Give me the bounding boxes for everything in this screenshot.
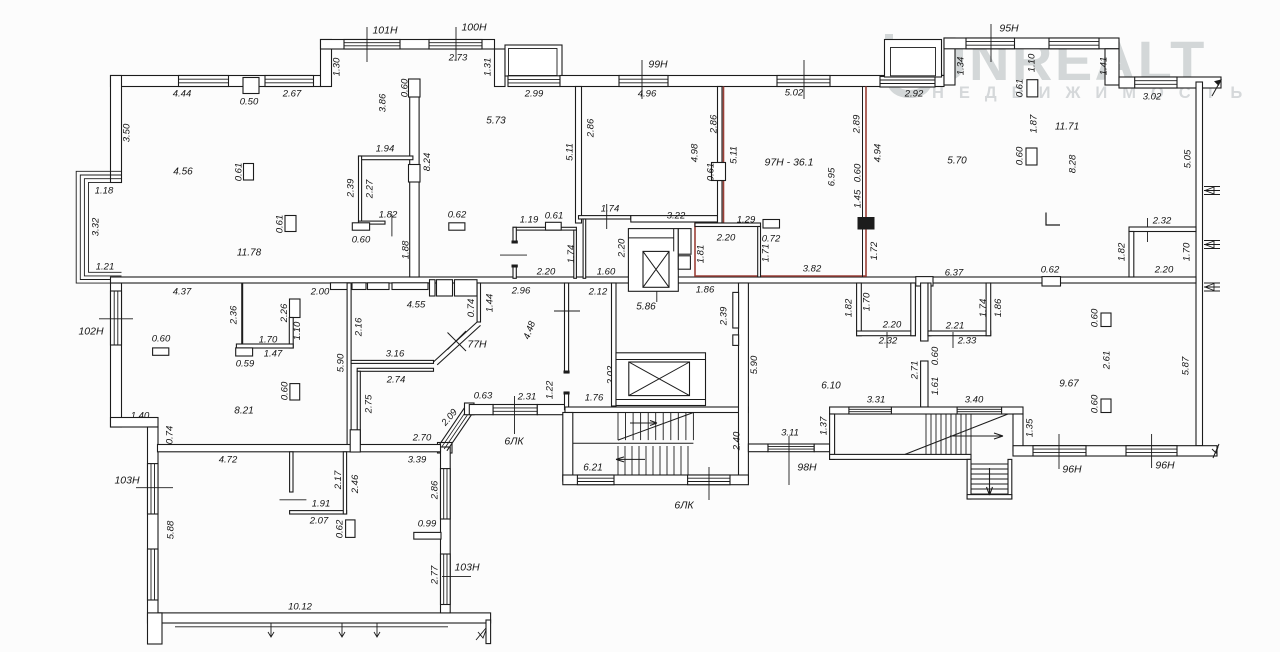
shelf 0.59: [236, 348, 253, 356]
stair 98H bottom wall lower: [967, 495, 1012, 499]
svg-text:103Н: 103Н: [114, 474, 140, 486]
svg-text:2.16: 2.16: [353, 317, 364, 337]
svg-text:1.10: 1.10: [1026, 53, 1037, 72]
tick 100H: [455, 27, 457, 61]
vent 0.62 top: [449, 223, 465, 230]
svg-text:3.40: 3.40: [965, 394, 984, 405]
pier top of 8.24 wall: [409, 79, 421, 97]
wall corridor 2.71 lower: [921, 361, 928, 407]
svg-text:4.96: 4.96: [638, 88, 657, 99]
svg-text:4.56: 4.56: [173, 166, 193, 177]
svg-text:4.44: 4.44: [173, 88, 192, 99]
storage S1 left wall lower: [513, 266, 516, 278]
room 1.91 left wall: [290, 452, 293, 492]
window 2.86 right of 103H block: [441, 469, 451, 519]
svg-text:2.96: 2.96: [511, 285, 531, 296]
wall bottom step down stub: [486, 620, 491, 644]
svg-text:1.82: 1.82: [843, 298, 854, 317]
storage S2 top wall: [579, 216, 631, 219]
window 99H: [619, 76, 668, 87]
svg-text:0.99: 0.99: [418, 518, 437, 529]
stair 6LK upper flight arrow: [630, 421, 657, 426]
svg-text:3.22: 3.22: [667, 210, 686, 221]
ledge 0.99: [414, 532, 441, 539]
stair 6LK flight divider: [573, 442, 694, 444]
vent 0.60 967 lower: [1101, 399, 1111, 413]
diagonal wall 77H: [434, 322, 481, 365]
wall 5.11 vertical: [576, 87, 582, 224]
svg-text:2.33: 2.33: [957, 335, 977, 346]
svg-text:5.05: 5.05: [1182, 149, 1193, 168]
stair 6LK bottom wall: [563, 475, 749, 485]
svg-text:1.61: 1.61: [930, 377, 941, 396]
svg-text:5.70: 5.70: [947, 155, 967, 166]
storage S1 door tick: [500, 254, 527, 256]
svg-text:1.22: 1.22: [544, 380, 555, 399]
window 96H-1: [1033, 446, 1086, 456]
svg-text:1.41: 1.41: [1098, 57, 1109, 76]
vent pier corridor 1: [733, 292, 739, 328]
svg-text:3.86: 3.86: [377, 93, 388, 112]
tick 96H-1: [1058, 434, 1060, 469]
tick 103H right: [442, 576, 471, 578]
window 6LK bottom 2: [688, 475, 730, 485]
balcony mark right 2: [1204, 241, 1220, 249]
svg-text:2.71: 2.71: [909, 361, 920, 381]
svg-text:1.44: 1.44: [484, 294, 495, 313]
left bay window nested lines: [76, 171, 121, 283]
room 2.27 bottom wall: [359, 221, 386, 224]
tick 5.02: [803, 60, 805, 99]
svg-text:1.34: 1.34: [955, 57, 966, 76]
svg-text:4.37: 4.37: [173, 286, 192, 297]
door jamb 4.48: [564, 371, 570, 374]
pier row B1: [430, 280, 436, 296]
tick 95H: [990, 24, 992, 62]
column mark L: [1046, 213, 1060, 226]
wall 4.48 right vertical lower: [565, 392, 569, 410]
svg-text:1.70: 1.70: [861, 292, 872, 311]
wall left exterior mid: [111, 283, 122, 427]
svg-text:3.02: 3.02: [1143, 91, 1162, 102]
room 1.91 bottom wall: [290, 511, 347, 514]
wall corridor 2.71 upper: [921, 283, 928, 341]
vent 0.62 bl: [346, 520, 355, 538]
window 2.67: [265, 76, 314, 87]
balcony box 2.99: [505, 45, 562, 76]
svg-text:0.74: 0.74: [164, 426, 175, 445]
room A right wall: [911, 283, 916, 336]
wall 8.24 vertical: [410, 87, 419, 278]
svg-text:5.88: 5.88: [165, 520, 176, 539]
room A bottom wall: [857, 331, 916, 336]
svg-text:2.21: 2.21: [945, 320, 965, 331]
watermark logo: [889, 34, 930, 94]
svg-text:2.20: 2.20: [716, 232, 736, 243]
svg-text:1.70: 1.70: [1181, 242, 1192, 261]
wall 98H left approach: [748, 444, 768, 452]
pier 0.61 storage: [546, 222, 562, 230]
wall 2.26 right lower: [289, 318, 293, 349]
svg-text:2.12: 2.12: [588, 286, 608, 297]
window 100H: [429, 40, 482, 50]
svg-text:8.24: 8.24: [422, 153, 433, 172]
window 4.44: [179, 76, 229, 87]
svg-text:9.67: 9.67: [1059, 378, 1079, 389]
svg-text:6ЛК: 6ЛК: [674, 499, 694, 511]
stair 98H left wall: [830, 414, 835, 459]
stair 98H upper arrow: [950, 433, 1003, 439]
svg-text:96Н: 96Н: [1062, 463, 1082, 475]
balcony mark right 3: [1204, 283, 1220, 291]
wall 97H left black: [718, 87, 723, 163]
svg-text:2.27: 2.27: [364, 179, 375, 199]
wall top middle exterior: [560, 76, 944, 87]
svg-text:11.71: 11.71: [1055, 121, 1079, 132]
svg-text:1.21: 1.21: [96, 261, 115, 272]
room 1.91 right wall: [343, 452, 346, 514]
svg-text:10.12: 10.12: [288, 601, 312, 612]
svg-text:0.61: 0.61: [233, 163, 244, 182]
window 3.02: [1135, 77, 1177, 88]
wall 3.11-to-stair: [814, 444, 829, 452]
tick 2.32: [1147, 218, 1149, 242]
window 5.02: [777, 76, 830, 87]
svg-text:2.32: 2.32: [878, 335, 898, 346]
wall bottom exterior 10.12: [158, 613, 491, 623]
svg-text:4.94: 4.94: [872, 144, 883, 163]
svg-text:3.50: 3.50: [121, 123, 132, 142]
wall left step corner: [111, 418, 159, 428]
elevator E2 shaft: [629, 362, 690, 396]
storage S2 left wall: [583, 219, 586, 278]
window 2.31: [493, 405, 537, 415]
wall 2.36 vertical: [241, 283, 243, 345]
jog wall 1.44 vertical: [477, 283, 480, 322]
pier row A2: [352, 283, 366, 290]
vent 0.60 right: [1026, 148, 1037, 165]
room B left wall: [928, 283, 931, 336]
elevator E1 top band: [628, 237, 673, 239]
svg-text:2.89: 2.89: [851, 114, 862, 134]
svg-text:2.36: 2.36: [228, 305, 239, 325]
svg-text:1.81: 1.81: [695, 245, 706, 264]
wall bay-101H left riser: [321, 40, 332, 87]
svg-text:4.98: 4.98: [689, 143, 700, 162]
svg-text:101Н: 101Н: [372, 24, 398, 36]
wall left exterior upper: [111, 76, 122, 183]
wall lobby left vertical: [612, 283, 617, 406]
svg-text:5.90: 5.90: [749, 355, 760, 374]
svg-text:1.60: 1.60: [597, 266, 616, 277]
vent 0.61 upper: [244, 164, 254, 181]
svg-text:2.31: 2.31: [517, 391, 537, 402]
tick 1.74 window: [606, 204, 608, 229]
svg-text:0.60: 0.60: [1089, 394, 1100, 413]
wall bay-101H top: [321, 40, 495, 50]
svg-text:1.47: 1.47: [264, 348, 283, 359]
svg-text:4.72: 4.72: [219, 454, 238, 465]
svg-text:2.32: 2.32: [1152, 215, 1172, 226]
svg-text:5.73: 5.73: [486, 115, 506, 126]
tick 6LK bottom: [708, 467, 710, 500]
svg-text:1.76: 1.76: [585, 392, 604, 403]
svg-text:1.31: 1.31: [482, 58, 493, 77]
svg-text:3.32: 3.32: [90, 217, 101, 236]
svg-text:2.40: 2.40: [731, 431, 742, 451]
tick 101H: [366, 27, 368, 62]
wall 2.74 horizontal: [357, 368, 433, 371]
svg-text:1.29: 1.29: [737, 214, 756, 225]
svg-text:2.00: 2.00: [310, 286, 330, 297]
svg-text:8.21: 8.21: [234, 405, 253, 416]
svg-text:2.07: 2.07: [309, 515, 329, 526]
svg-text:0.60: 0.60: [352, 234, 371, 245]
svg-text:3.11: 3.11: [781, 427, 799, 438]
svg-text:2.39: 2.39: [718, 306, 729, 326]
svg-text:2.75: 2.75: [363, 394, 374, 414]
room 2.32 top wall: [1129, 227, 1196, 232]
tick 99H: [641, 60, 643, 99]
window 95H-1: [966, 38, 1015, 49]
svg-text:3.31: 3.31: [867, 394, 886, 405]
vent 0.72: [763, 220, 780, 229]
svg-text:0.60: 0.60: [1014, 146, 1025, 165]
svg-text:6.10: 6.10: [821, 380, 841, 391]
storage S1 left wall upper: [513, 227, 516, 242]
pier row A4: [392, 283, 428, 290]
wall top right exterior: [1119, 77, 1221, 88]
window 102H: [111, 291, 122, 345]
stair 98H side walls lower: [967, 459, 971, 499]
svg-text:0.63: 0.63: [474, 390, 493, 401]
stair 98H down arrow: [987, 468, 993, 495]
window 3.40: [957, 407, 1002, 414]
tick room B: [952, 332, 954, 348]
window 2.92: [880, 77, 935, 88]
stair 6LK upper flight treads: [618, 413, 693, 441]
svg-text:0.60: 0.60: [399, 78, 410, 97]
wall mid horizontal main: [111, 277, 1197, 283]
door pier on 8.24 wall: [409, 165, 421, 183]
svg-text:1.71: 1.71: [760, 244, 771, 263]
svg-text:0.74: 0.74: [466, 299, 477, 318]
wall bottom right exterior: [1013, 446, 1217, 456]
vent 0.60 967 upper: [1101, 313, 1111, 327]
bottom rail tick 1: [268, 623, 274, 637]
svg-text:1.74: 1.74: [566, 245, 577, 264]
svg-text:0.61: 0.61: [545, 210, 564, 221]
tick 102H: [99, 318, 133, 320]
svg-text:0.60: 0.60: [852, 163, 863, 182]
svg-text:2.70: 2.70: [412, 432, 432, 443]
svg-text:1.82: 1.82: [1116, 242, 1127, 261]
svg-text:0.62: 0.62: [448, 209, 467, 220]
svg-text:100Н: 100Н: [461, 21, 487, 33]
svg-text:1.74: 1.74: [978, 299, 989, 318]
room 1.91 door tick: [280, 499, 307, 501]
tick wall 4.48: [554, 310, 580, 312]
svg-text:1.19: 1.19: [520, 214, 539, 225]
pier row A1: [331, 283, 351, 290]
svg-text:0.50: 0.50: [240, 96, 259, 107]
stair 6LK upper flight diagonal: [618, 413, 693, 441]
chamfer top junction pier: [465, 403, 475, 415]
pier mid-wall right 2: [1042, 277, 1061, 286]
wall 4.48 right vertical upper: [565, 283, 569, 373]
stair 98H top wall: [830, 407, 1023, 414]
stair 98H lower flight: [971, 464, 1008, 494]
window 6LK bottom 1: [577, 475, 614, 485]
elevator E2 X: [629, 362, 690, 396]
window 95H-2: [1049, 38, 1099, 49]
svg-text:6.21: 6.21: [583, 462, 602, 473]
bottom rail tick 2: [339, 623, 345, 637]
balcony mark right 1: [1204, 187, 1220, 195]
svg-text:1.35: 1.35: [1024, 418, 1035, 437]
wall bay-95H right riser: [1105, 49, 1119, 85]
storage S1 top wall: [513, 227, 576, 230]
window 96H-2: [1126, 446, 1177, 456]
stair 98H bottom wall: [830, 454, 971, 459]
pier mid-wall right 1: [916, 277, 933, 286]
svg-text:0.61: 0.61: [705, 163, 716, 182]
stair 6LK top wall: [565, 407, 748, 413]
svg-text:1.18: 1.18: [95, 185, 114, 196]
tick below E1: [656, 291, 658, 302]
wall top-left exterior: [111, 76, 322, 87]
stair 6LK lower flight treads: [618, 446, 688, 475]
svg-text:2.20: 2.20: [882, 319, 902, 330]
svg-text:3.82: 3.82: [803, 263, 822, 274]
wall bottom-left-block right: [441, 447, 451, 613]
room B bottom wall: [928, 331, 991, 336]
svg-text:0.60: 0.60: [930, 346, 941, 365]
stair 98H upper diagonal: [905, 414, 1008, 454]
svg-text:1.30: 1.30: [331, 57, 342, 76]
svg-text:5.11: 5.11: [728, 146, 739, 164]
wall red-room right: [758, 227, 761, 278]
door pier 0.61 on 97H left wall: [712, 163, 726, 181]
wall-end arrow right: [1212, 80, 1221, 96]
break mark bottom: [476, 628, 486, 640]
wall red-room top black: [695, 223, 761, 227]
pier row A3: [368, 283, 390, 290]
svg-text:6.37: 6.37: [945, 267, 964, 278]
svg-text:2.20: 2.20: [1154, 264, 1174, 275]
svg-text:2.86: 2.86: [429, 480, 440, 500]
pier row B2: [437, 280, 453, 296]
wall right exterior: [1196, 82, 1203, 446]
svg-text:2.39: 2.39: [345, 178, 356, 198]
77H door cross: [448, 331, 467, 351]
svg-text:1.86: 1.86: [993, 298, 1004, 317]
svg-text:5.02: 5.02: [785, 87, 804, 98]
door tick 1.82: [391, 214, 393, 236]
svg-text:2.74: 2.74: [386, 374, 406, 385]
svg-text:1.72: 1.72: [869, 241, 880, 260]
chamfer glazing 2.09: [442, 405, 473, 449]
left bottom stub: [148, 613, 163, 644]
unit 97H red outline: [695, 87, 866, 277]
svg-text:2.99: 2.99: [524, 88, 544, 99]
svg-text:1.45: 1.45: [852, 189, 863, 208]
window 101H: [344, 40, 400, 50]
svg-text:2.67: 2.67: [282, 88, 302, 99]
chamfer bottom junction pier: [438, 443, 453, 454]
vent box right of E1 lower: [678, 256, 690, 269]
svg-text:0.60: 0.60: [1089, 308, 1100, 327]
wall 3.22 lobby top: [631, 216, 718, 222]
svg-text:3.16: 3.16: [386, 348, 405, 359]
window 3.11: [768, 444, 814, 452]
tick 96H-2: [1151, 434, 1153, 468]
svg-text:1.94: 1.94: [376, 143, 395, 154]
svg-text:0.61: 0.61: [1014, 79, 1025, 98]
svg-text:95Н: 95Н: [999, 22, 1019, 34]
stair 6LK left wall: [563, 413, 573, 482]
vent pier corridor 2: [733, 335, 739, 346]
balcony box 2.92: [885, 40, 942, 78]
wall 0.63 segment: [469, 405, 493, 415]
chamfer wall 2.09: [439, 403, 476, 451]
vent 0.61 right: [1027, 80, 1038, 97]
pier 1.10: [290, 299, 301, 318]
svg-text:2.86: 2.86: [708, 114, 719, 134]
svg-text:0.62: 0.62: [1041, 264, 1060, 275]
wall 4.72-room top: [158, 445, 441, 452]
svg-text:5.86: 5.86: [636, 301, 656, 312]
wall bay-101H right riser: [495, 49, 506, 87]
svg-text:2.20: 2.20: [536, 266, 556, 277]
vent 0.60 mid-left: [290, 384, 300, 400]
wall bay-95H left riser: [944, 38, 955, 85]
svg-text:2.61: 2.61: [1101, 351, 1112, 371]
wall 3.16 horizontal: [351, 360, 433, 363]
svg-text:97Н - 36.1: 97Н - 36.1: [764, 156, 813, 168]
tick 2.31 window: [514, 396, 516, 419]
room B right wall: [986, 283, 991, 336]
stair 6LK right corridor wall: [739, 283, 749, 481]
storage S1 door jambs: [512, 241, 518, 244]
svg-text:8.28: 8.28: [1067, 154, 1078, 173]
elevator E1 X: [643, 251, 669, 287]
tick 98H: [788, 436, 790, 485]
svg-text:2.20: 2.20: [616, 238, 627, 258]
svg-text:2.26: 2.26: [279, 303, 290, 323]
wall 97H right thin: [862, 87, 864, 278]
tick 103H: [136, 487, 173, 489]
svg-text:1.86: 1.86: [696, 284, 715, 295]
svg-text:2.17: 2.17: [333, 470, 344, 490]
svg-text:2.46: 2.46: [350, 474, 361, 494]
window 2.77: [441, 554, 451, 605]
window 103H upper: [148, 464, 159, 514]
svg-text:1.37: 1.37: [818, 416, 829, 435]
room A left wall: [857, 283, 862, 336]
svg-text:0.62: 0.62: [334, 519, 345, 538]
svg-text:5.87: 5.87: [1180, 356, 1191, 375]
room 2.27 top wall: [359, 156, 413, 160]
storage S1 right wall: [574, 230, 577, 278]
svg-text:1.74: 1.74: [601, 203, 620, 214]
wall 2.46 stub: [350, 430, 360, 452]
svg-text:0.60: 0.60: [279, 381, 290, 400]
wall 2.75 vertical: [357, 371, 360, 447]
svg-text:2.73: 2.73: [448, 52, 468, 63]
window 2.99: [508, 76, 560, 87]
stair 98H upper flight: [926, 414, 971, 454]
